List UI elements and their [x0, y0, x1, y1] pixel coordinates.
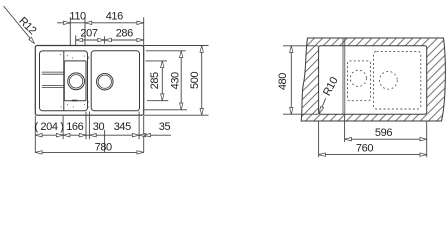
dim 596 line [345, 138, 427, 140]
main bowl inner rect [91, 51, 139, 111]
bottom ext: gap right [88, 112, 90, 140]
dim row1 line [57, 22, 144, 24]
main bowl drain outer circle [97, 73, 114, 90]
dim 760/596 right extension [426, 122, 428, 158]
svg-text:596: 596 [375, 127, 392, 139]
svg-text:35: 35 [159, 121, 171, 133]
dim 110 extension line A [69, 17, 71, 45]
dim 480 bottom extension [283, 113, 319, 115]
svg-text:500: 500 [189, 72, 201, 89]
dim 430 line [180, 51, 182, 110]
cut-out opening [319, 46, 427, 114]
drainer groove 2 [42, 84, 63, 86]
R12 corner radius leader [4, 6, 35, 44]
main bowl drain inner circle [98, 75, 111, 88]
dim row2 line [76, 39, 144, 41]
svg-text:416: 416 [106, 11, 123, 23]
half bowl drain outer circle [68, 73, 85, 90]
bottom ext: gap left [85, 112, 87, 140]
bottom dim line row [35, 134, 143, 136]
mark on half bowl bottom edge [72, 100, 78, 102]
hidden main bowl drain dashed circle [380, 71, 398, 89]
dim 760 line [319, 154, 427, 156]
dim 285 line [161, 61, 163, 101]
tick E (main drain center) [104, 36, 106, 44]
sink right edge extension up [143, 17, 145, 45]
sink bottom edge extension right [144, 114, 209, 116]
svg-text:R12: R12 [16, 15, 38, 37]
half bowl drain inner circle [69, 75, 82, 88]
dim 760 left extension [318, 122, 320, 158]
bottom ext: sink right edge down [143, 116, 145, 153]
svg-text:166: 166 [66, 121, 83, 133]
svg-text:760: 760 [356, 142, 373, 154]
bottom ext: sink left edge down [34, 116, 36, 153]
sink divider double line seen through cut-out [342, 38, 344, 114]
svg-text:110: 110 [69, 11, 86, 23]
granite texture dots [60, 54, 92, 109]
svg-text:345: 345 [114, 121, 131, 133]
svg-text:286: 286 [116, 28, 133, 40]
svg-text:430: 430 [170, 72, 182, 89]
svg-text:207: 207 [80, 28, 97, 40]
dim 480 top extension [283, 45, 319, 47]
half bowl inner rect [64, 61, 86, 101]
ext main bowl bottom right [145, 109, 188, 111]
R10 leader [319, 98, 325, 113]
drainer groove 1 [42, 71, 63, 73]
svg-text:480: 480 [277, 73, 289, 90]
svg-text:( 204 ): ( 204 ) [35, 121, 64, 133]
hidden half bowl drain dashed circle [350, 70, 366, 86]
worktop slab with break edge on left [301, 38, 445, 121]
hidden main bowl dashed rect [374, 51, 421, 109]
dim 596 left extension [344, 115, 346, 142]
ext half bowl top right [146, 60, 168, 62]
ext main bowl top right [146, 50, 186, 52]
svg-text:780: 780 [95, 141, 112, 153]
bottom ext: main bowl right [138, 111, 140, 139]
dim extension line B [84, 17, 86, 45]
bottom ext: divider down [62, 116, 64, 139]
sink outer rim [35, 46, 143, 116]
hidden half bowl dashed rect [348, 61, 371, 101]
sink top edge extension right [144, 45, 209, 47]
dim 780 line [35, 151, 143, 153]
divider line drainer/half-bowl [63, 51, 65, 111]
left group (drainer + half bowl) inner rim [40, 51, 88, 111]
dim 500 line [201, 46, 203, 116]
dim row2: ext D (half-bowl drain center) [75, 35, 77, 45]
ext half bowl bottom right [147, 100, 168, 102]
dim 480 line [290, 46, 292, 114]
svg-text:30: 30 [93, 121, 105, 133]
bottom ext: text separator [104, 130, 106, 153]
svg-text:285: 285 [149, 72, 161, 89]
